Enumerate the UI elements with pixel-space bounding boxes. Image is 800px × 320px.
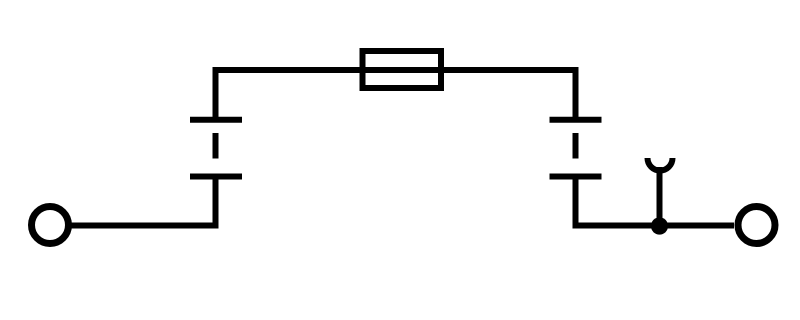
wire: left terminal to left disconnect lower contact	[70, 177, 216, 226]
test tap: fork (semicircle opening up)	[648, 158, 673, 171]
disconnect contact left: lower bar	[190, 174, 242, 180]
test tap: stem wire	[657, 167, 663, 226]
disconnect contact left: upper bar	[190, 117, 242, 123]
disconnect contact right: lower bar	[550, 174, 602, 180]
fuse F1 (rectangle over the top wire)	[363, 51, 442, 88]
disconnect contact right: upper bar	[550, 117, 602, 123]
terminal circle right (output terminal)	[738, 207, 775, 244]
disconnect contact left: middle blade dash	[213, 133, 219, 159]
disconnect contact right: middle blade dash	[573, 133, 579, 159]
wire: top run from left disconnect up, across through fuse, down to right disconnect	[216, 70, 576, 120]
wire: right disconnect down and across to right terminal	[576, 177, 735, 226]
terminal circle left (input terminal)	[32, 207, 69, 244]
junction node dot	[651, 217, 668, 234]
